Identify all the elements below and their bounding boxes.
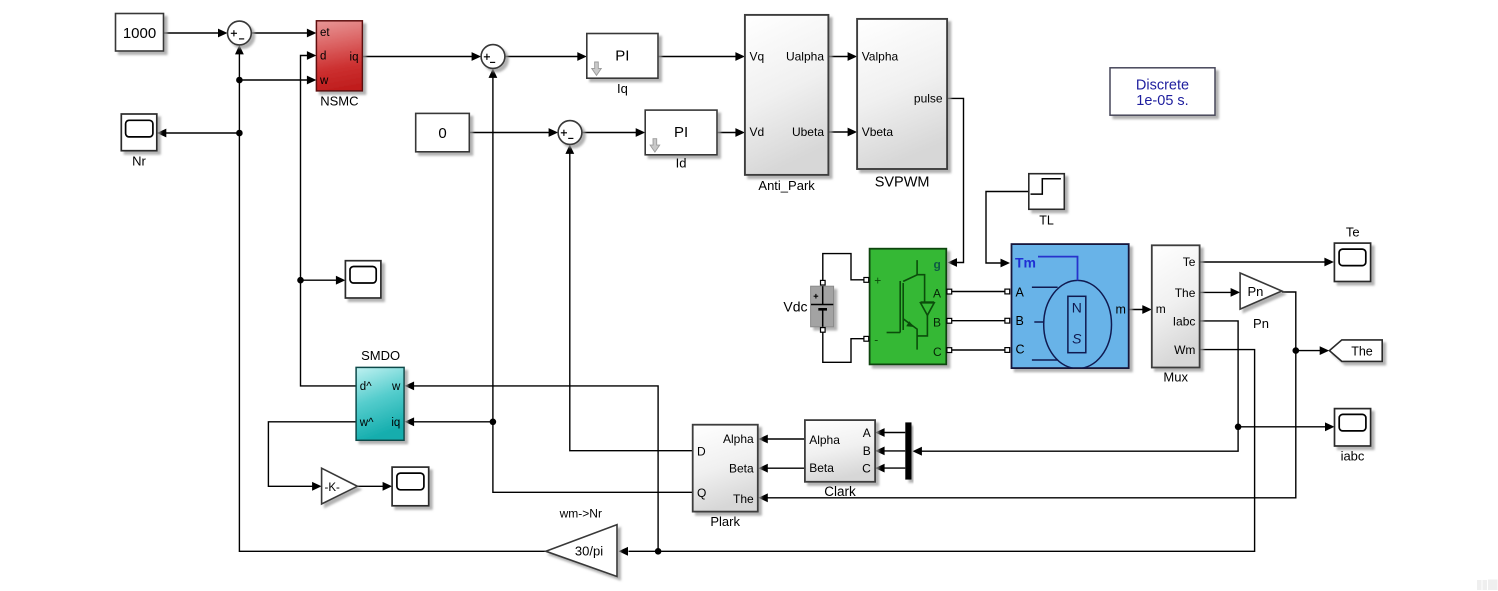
svg-text:Vq: Vq: [750, 50, 765, 64]
svg-text:Ualpha: Ualpha: [786, 50, 824, 64]
svg-text:pulse: pulse: [914, 92, 943, 106]
svg-text:Pn: Pn: [1248, 284, 1264, 299]
svg-text:B: B: [1016, 314, 1024, 328]
svg-text:Beta: Beta: [729, 462, 754, 476]
svg-text:wm->Nr: wm->Nr: [559, 507, 602, 521]
svg-text:N: N: [1072, 300, 1082, 316]
svg-text:Q: Q: [697, 486, 706, 500]
svg-text:Iq: Iq: [617, 81, 628, 96]
svg-text:Vdc: Vdc: [783, 299, 807, 315]
svg-text:iabc: iabc: [1341, 449, 1365, 464]
svg-text:-: -: [874, 333, 878, 347]
svg-text:Valpha: Valpha: [862, 50, 899, 64]
svg-text:S: S: [1072, 331, 1082, 347]
svg-text:m: m: [1156, 302, 1166, 316]
svg-text:Nr: Nr: [132, 154, 146, 169]
svg-text:et: et: [320, 27, 330, 39]
svg-text:Plark: Plark: [710, 514, 740, 529]
svg-text:Te: Te: [1346, 225, 1360, 240]
svg-text:A: A: [933, 286, 941, 300]
svg-text:30/pi: 30/pi: [575, 543, 603, 558]
svg-text:g: g: [934, 257, 941, 271]
svg-text:A: A: [863, 426, 871, 440]
svg-text:Pn: Pn: [1253, 316, 1269, 331]
svg-text:Vbeta: Vbeta: [862, 125, 894, 139]
svg-text:NSMC: NSMC: [320, 94, 358, 109]
svg-text:PI: PI: [674, 124, 688, 141]
svg-text:Ubeta: Ubeta: [792, 125, 824, 139]
svg-text:iq: iq: [350, 51, 359, 63]
svg-text:d: d: [320, 51, 326, 63]
svg-text:PI: PI: [615, 48, 629, 65]
svg-text:Alpha: Alpha: [809, 433, 840, 447]
svg-text:Wm: Wm: [1174, 343, 1195, 357]
svg-text:The: The: [1175, 286, 1196, 300]
svg-text:Discrete: Discrete: [1136, 78, 1189, 94]
svg-text:1e-05 s.: 1e-05 s.: [1136, 93, 1188, 109]
svg-text:w^: w^: [359, 417, 374, 429]
svg-text:B: B: [933, 316, 941, 330]
svg-text:Alpha: Alpha: [723, 432, 754, 446]
svg-text:TL: TL: [1039, 214, 1054, 228]
svg-text:Vd: Vd: [750, 125, 765, 139]
svg-text:d^: d^: [360, 381, 372, 393]
svg-text:+: +: [874, 273, 881, 287]
svg-text:Tm: Tm: [1015, 255, 1036, 271]
svg-text:w: w: [391, 381, 401, 393]
svg-text:w: w: [319, 75, 329, 87]
svg-text:C: C: [933, 345, 942, 359]
svg-text:Clark: Clark: [824, 484, 856, 499]
svg-text:1000: 1000: [123, 25, 156, 42]
svg-text:m: m: [1116, 303, 1126, 317]
svg-text:Id: Id: [676, 156, 687, 171]
svg-text:Anti_Park: Anti_Park: [758, 178, 815, 193]
svg-text:B: B: [863, 444, 871, 458]
svg-text:A: A: [1016, 286, 1025, 300]
svg-text:Beta: Beta: [809, 461, 834, 475]
svg-text:C: C: [1016, 343, 1025, 357]
svg-text:-K-: -K-: [325, 482, 341, 494]
svg-text:Te: Te: [1183, 255, 1196, 269]
svg-text:C: C: [862, 461, 871, 475]
svg-text:iq: iq: [391, 417, 400, 429]
svg-text:D: D: [697, 445, 706, 459]
svg-text:The: The: [1351, 344, 1373, 358]
svg-text:SVPWM: SVPWM: [875, 175, 930, 191]
svg-text:The: The: [733, 492, 754, 506]
svg-text:0: 0: [438, 125, 446, 142]
svg-text:Mux: Mux: [1163, 370, 1188, 385]
svg-text:Iabc: Iabc: [1173, 314, 1196, 328]
svg-text:SMDO: SMDO: [361, 348, 400, 363]
